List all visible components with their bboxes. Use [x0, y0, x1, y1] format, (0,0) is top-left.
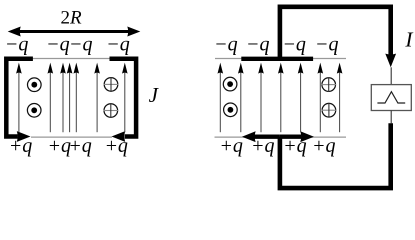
bottom plate (thin) — [31, 136, 112, 138]
lead wire out of pulse generator (thin) — [390, 111, 392, 124]
svg-text:+q: +q — [251, 135, 275, 157]
svg-text:+q: +q — [283, 135, 307, 157]
field arrow E4 right — [278, 63, 284, 133]
B-field out symbol right (dot circle 1) — [223, 77, 237, 91]
B-field out symbol right (dot circle 2) — [224, 103, 238, 117]
B-field in symbol right (plus circle 2) — [322, 103, 337, 118]
return wire (thick, generator to bottom plate) — [280, 123, 391, 188]
field arrow E2 right — [238, 63, 244, 133]
field arrow E5 — [74, 63, 80, 133]
svg-text:−q: −q — [214, 33, 238, 55]
bottom plate current arrow left — [242, 131, 280, 142]
svg-text:−q: −q — [106, 33, 130, 55]
svg-text:I: I — [404, 28, 413, 52]
svg-text:2R: 2R — [60, 8, 82, 29]
feed wire top (thick, plate to top rail to generator) — [280, 7, 391, 59]
svg-text:+q: +q — [312, 135, 336, 157]
field arrow E6 right — [318, 63, 324, 133]
svg-text:−q: −q — [315, 33, 339, 55]
svg-text:+q: +q — [9, 135, 33, 157]
B-field out symbol (dot circle 2) — [27, 104, 41, 118]
field arrow E4 — [67, 63, 73, 133]
field arrow E5 right — [298, 63, 304, 133]
top plate (thin) — [31, 58, 112, 60]
svg-text:−q: −q — [5, 33, 29, 55]
wire frame right (thick) with current arrow — [110, 59, 137, 142]
top plate right figure (thin) — [215, 58, 346, 60]
B-field in symbol (plus circle 1) — [104, 77, 119, 92]
current arrow I head on right wire — [385, 54, 396, 68]
lead wire into pulse generator (thin) — [390, 67, 392, 84]
svg-text:−q: −q — [69, 33, 93, 55]
B-field in symbol (plus circle 2) — [103, 103, 118, 118]
bottom plate right figure (thin) — [215, 136, 347, 138]
pulse waveform symbol — [377, 92, 405, 103]
field arrow E3 — [60, 63, 66, 133]
pulse generator box U1 — [371, 85, 411, 111]
svg-text:+q: +q — [104, 135, 128, 157]
B-field in symbol right (plus circle 1) — [321, 77, 336, 92]
bottom plate current arrow right — [280, 131, 314, 142]
svg-text:+q: +q — [219, 135, 243, 157]
svg-text:−q: −q — [282, 33, 306, 55]
field arrow E1 — [16, 63, 22, 133]
svg-text:−q: −q — [246, 33, 270, 55]
field arrow E6 — [94, 63, 100, 133]
top plate current bar (thick) — [241, 57, 313, 61]
dimension arrow 2R (double-headed) — [8, 27, 141, 37]
wire frame left (thick) with current arrow — [6, 59, 33, 142]
svg-text:−q: −q — [46, 33, 70, 55]
field arrow E7 right — [337, 63, 343, 133]
field arrow E2 — [48, 63, 54, 133]
field arrow E3 right — [258, 63, 264, 133]
field arrow E1 right — [218, 63, 224, 133]
field arrow E7 — [122, 63, 128, 133]
B-field out symbol (dot circle 1) — [28, 78, 42, 92]
svg-text:+q: +q — [68, 135, 92, 157]
